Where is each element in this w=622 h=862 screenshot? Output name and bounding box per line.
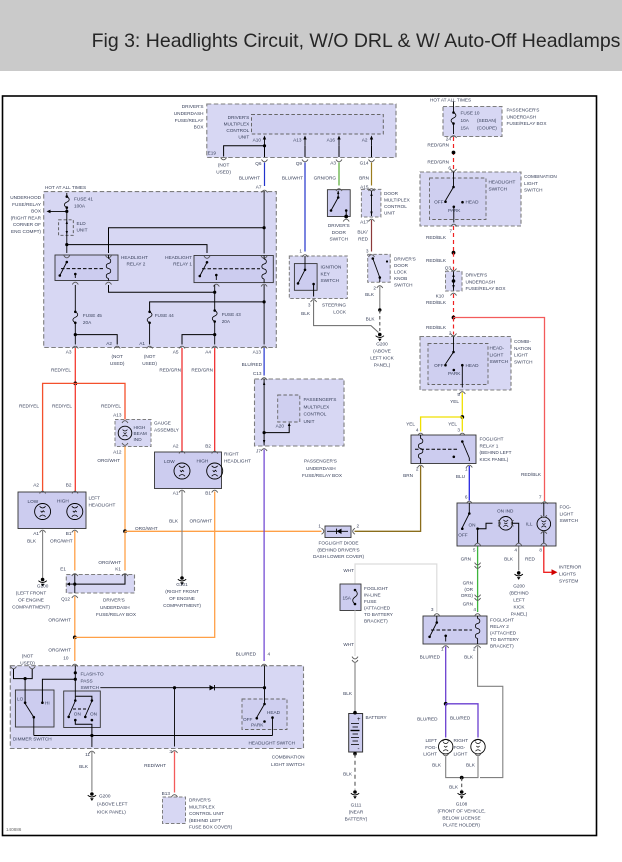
svg-text:RELAY 1: RELAY 1 (480, 443, 499, 448)
svg-text:A4: A4 (205, 350, 211, 355)
box: dimmer switch (inner) (15, 690, 54, 727)
svg-text:UNDERDASH: UNDERDASH (174, 111, 204, 116)
svg-text:FUSE/RELAY: FUSE/RELAY (175, 118, 205, 123)
svg-text:Q3: Q3 (445, 266, 452, 271)
svg-text:B1: B1 (205, 491, 211, 496)
svg-text:A12: A12 (113, 450, 122, 455)
svg-text:RED/GRN: RED/GRN (159, 368, 181, 373)
svg-text:GRN/ORG: GRN/ORG (314, 176, 337, 181)
svg-text:RED/BLK: RED/BLK (426, 300, 447, 305)
svg-text:RED/YEL: RED/YEL (52, 404, 72, 409)
svg-text:5: 5 (473, 548, 476, 553)
svg-text:2: 2 (357, 524, 360, 529)
svg-text:(NOT: (NOT (22, 654, 34, 659)
box: headlight relay 2 (55, 255, 148, 281)
svg-text:E19: E19 (208, 151, 217, 156)
box: foglight relay 1 (411, 435, 512, 464)
svg-text:BLK: BLK (343, 772, 353, 777)
svg-text:(NOT: (NOT (218, 163, 230, 168)
box: ELD unit (59, 220, 88, 236)
svg-text:(NOT: (NOT (144, 354, 156, 359)
svg-text:A16: A16 (327, 138, 336, 143)
headlight relay 2 internals (59, 255, 112, 285)
svg-text:PASSENGER'S: PASSENGER'S (304, 459, 337, 464)
svg-text:RED/YEL: RED/YEL (19, 404, 39, 409)
svg-text:OFF: OFF (458, 533, 468, 538)
svg-text:ORG/WHT: ORG/WHT (190, 519, 213, 524)
svg-text:UNDERDASH: UNDERDASH (306, 466, 336, 471)
box: passenger's underdash fuse/relay box (fuse 10) (443, 107, 547, 137)
wire relay2 coil low to relay1 out junction (109, 285, 217, 294)
svg-text:LIGHT: LIGHT (560, 511, 574, 516)
svg-text:A20: A20 (276, 424, 285, 429)
svg-text:BRN: BRN (403, 473, 413, 478)
svg-text:WHT: WHT (343, 642, 354, 647)
right headlight bulbs (174, 463, 223, 493)
box: driver's underdash fuse/relay box (small right) (446, 271, 507, 291)
box: left headlight (18, 492, 115, 529)
wire relay2 out to fuse 45 and A2 (73, 285, 117, 345)
svg-text:G108: G108 (456, 802, 468, 807)
svg-text:4: 4 (473, 607, 476, 612)
svg-text:HEADLIGHT: HEADLIGHT (121, 255, 148, 260)
svg-text:ORG/WHT: ORG/WHT (97, 458, 120, 463)
svg-text:-: - (358, 747, 360, 753)
wire G14->A15 BRN (369, 163, 375, 192)
svg-text:A2: A2 (362, 138, 368, 143)
svg-text:COMBINATION: COMBINATION (272, 755, 305, 760)
svg-text:GRN: GRN (461, 557, 471, 562)
svg-text:HIGH: HIGH (134, 425, 146, 430)
svg-text:FUSE 43: FUSE 43 (222, 312, 241, 317)
svg-text:Q6: Q6 (255, 161, 262, 166)
svg-text:FUSE: FUSE (364, 599, 377, 604)
svg-text:A5: A5 (173, 350, 179, 355)
svg-text:A7: A7 (256, 185, 262, 190)
wire WHT battery feed to relay 2 pin 3 (355, 564, 440, 616)
svg-text:OFF: OFF (243, 717, 253, 722)
svg-text:BLU: BLU (456, 474, 466, 479)
gauge assembly high beam ind (118, 421, 132, 446)
svg-text:15A: 15A (461, 126, 470, 131)
svg-text:OF ENGINE: OF ENGINE (18, 598, 44, 603)
box: door multiplex control unit (361, 189, 410, 217)
svg-text:A3: A3 (66, 350, 72, 355)
svg-text:FOGLIGHT: FOGLIGHT (490, 618, 514, 623)
node labels: top multiplex (208, 138, 395, 368)
driver's underdash box (bottom) internals (67, 575, 126, 599)
svg-text:G100: G100 (37, 584, 49, 589)
svg-text:LEFT: LEFT (426, 738, 438, 743)
svg-text:RED: RED (525, 557, 536, 562)
svg-text:(RIGHT REAR: (RIGHT REAR (11, 215, 42, 220)
svg-text:SWITCH: SWITCH (330, 237, 349, 242)
svg-text:UNDERDASH: UNDERDASH (466, 279, 496, 284)
wire door knob to G200 BLK (378, 287, 381, 332)
bottom bus wire (34, 734, 273, 754)
arrow feed left (47, 210, 69, 214)
svg-text:G111: G111 (351, 803, 362, 808)
svg-text:4: 4 (268, 652, 271, 657)
box: flash-to-pass switch (inner) (64, 672, 104, 728)
svg-text:BLK: BLK (466, 763, 476, 768)
box: underhood fuse/relay box (10, 192, 276, 348)
wire BLU/RED into head switch (264, 666, 266, 700)
svg-text:A15: A15 (360, 184, 369, 189)
svg-text:G200: G200 (513, 584, 525, 589)
svg-text:20A: 20A (83, 320, 92, 325)
svg-text:BRACKET): BRACKET) (364, 619, 388, 624)
svg-text:FOGLIGHT: FOGLIGHT (364, 586, 388, 591)
svg-text:PASS: PASS (81, 678, 93, 683)
wire right headlight A1 BLK to G101 (178, 491, 186, 585)
svg-text:(ATTACHED: (ATTACHED (364, 606, 391, 611)
svg-text:UNIT: UNIT (77, 228, 88, 233)
wire foglight switch 5 GRN down to relay 2 (475, 547, 481, 617)
svg-text:BLU/WHT: BLU/WHT (239, 176, 260, 181)
title bar background (0, 0, 622, 71)
box: right headlight (155, 452, 251, 489)
driver's door switch internals (330, 191, 350, 222)
svg-text:(BEHIND LEFT: (BEHIND LEFT (480, 450, 512, 455)
wire Q12 ORG/WHT down to junction (72, 597, 78, 667)
svg-text:PARK: PARK (251, 723, 264, 728)
wire A13 BLU/RED to C13 (261, 348, 267, 380)
headlight relay 1 internals (199, 256, 268, 287)
svg-text:G14: G14 (360, 161, 369, 166)
svg-text:RED/GRN: RED/GRN (427, 160, 449, 165)
svg-text:BLK: BLK (432, 763, 442, 768)
svg-text:1: 1 (465, 467, 468, 472)
svg-text:PASSENGER'S: PASSENGER'S (507, 108, 540, 113)
svg-text:ELD: ELD (77, 221, 87, 226)
wire 11 BLK to G200 (88, 752, 96, 801)
svg-text:HEAD: HEAD (267, 710, 281, 715)
wire 7 RED/BLK dashed to D3 (451, 226, 457, 271)
node A2 arrow (370, 136, 373, 158)
svg-text:COMPARTMENT): COMPARTMENT) (163, 603, 201, 608)
svg-text:RED/BLK: RED/BLK (521, 472, 542, 477)
ignition key switch internals (297, 256, 315, 297)
svg-text:SWITCH: SWITCH (560, 518, 579, 523)
svg-text:ILL: ILL (526, 522, 533, 527)
svg-text:ORG/WHT: ORG/WHT (98, 560, 121, 565)
svg-text:BATTERY): BATTERY) (345, 817, 368, 822)
box: headlight relay 1 (165, 255, 273, 283)
wire RED/YEL horizontal (43, 383, 125, 491)
svg-text:IN-LINE: IN-LINE (364, 593, 381, 598)
svg-text:BLU/RED: BLU/RED (417, 717, 438, 722)
left headlight bulbs (35, 504, 83, 533)
svg-text:SWITCH: SWITCH (490, 359, 509, 364)
wire 5 YEL to foglight relay 1 (418, 393, 466, 436)
combination light switch internals (mid right) (444, 337, 465, 395)
svg-text:BLK/: BLK/ (357, 230, 368, 235)
svg-text:CONTROL: CONTROL (304, 412, 327, 417)
svg-text:RED/BLK: RED/BLK (426, 325, 447, 330)
wire ignition steering lock BLK (311, 300, 379, 333)
svg-text:UNIT: UNIT (304, 419, 315, 424)
svg-text:140886: 140886 (6, 827, 22, 832)
svg-text:7: 7 (449, 229, 452, 234)
foglight relay 1 internals (415, 435, 472, 468)
svg-text:RED: RED (358, 236, 369, 241)
foglight in-line fuse internals (353, 589, 358, 606)
svg-text:YEL: YEL (448, 422, 457, 427)
chevrons into left headlight (40, 491, 78, 493)
svg-text:DIMMER SWITCH: DIMMER SWITCH (13, 737, 52, 742)
wire fog lights BLK to G108 (446, 757, 478, 800)
svg-text:3: 3 (431, 607, 434, 612)
svg-text:RED/GRN: RED/GRN (191, 368, 213, 373)
passenger's multiplex internals (261, 379, 291, 451)
svg-text:LIGHT: LIGHT (454, 752, 468, 757)
svg-text:A1: A1 (173, 491, 179, 496)
svg-text:BLK: BLK (366, 317, 376, 322)
door lock knob switch internals (372, 257, 389, 288)
svg-text:(SEDAN): (SEDAN) (477, 118, 497, 123)
svg-text:COMPARTMENT): COMPARTMENT) (12, 605, 50, 610)
svg-text:LOW: LOW (28, 499, 39, 504)
svg-text:SWITCH: SWITCH (321, 278, 340, 283)
box: driver's underdash fuse/relay box (top) (174, 104, 396, 158)
svg-text:Q12: Q12 (61, 597, 70, 602)
svg-text:FOGLIGHT DIODE: FOGLIGHT DIODE (318, 541, 358, 546)
svg-text:BLK: BLK (301, 311, 311, 316)
svg-text:GAUGE: GAUGE (154, 421, 171, 426)
wire HI contact up to node 10 (42, 678, 77, 703)
flash-to-pass switch contacts (67, 699, 93, 735)
svg-text:BLK: BLK (464, 655, 474, 660)
svg-text:BATTERY: BATTERY (366, 715, 388, 720)
svg-text:HEADLIGHT: HEADLIGHT (489, 180, 516, 185)
svg-text:UNDERHOOD: UNDERHOOD (10, 195, 41, 200)
svg-text:TO BATTERY: TO BATTERY (364, 612, 394, 617)
svg-text:DRIVER'S: DRIVER'S (182, 104, 204, 109)
svg-text:BLU/RED: BLU/RED (450, 716, 471, 721)
svg-text:FUSE/RELAY BOX: FUSE/RELAY BOX (96, 612, 137, 617)
svg-text:BLK: BLK (169, 519, 179, 524)
svg-text:UNIT: UNIT (238, 134, 249, 139)
connector chevrons at box bottom (221, 158, 375, 162)
svg-text:ORG/WHT: ORG/WHT (50, 539, 73, 544)
svg-text:E1: E1 (60, 567, 66, 572)
svg-text:(BEHIND DRIVER'S: (BEHIND DRIVER'S (317, 547, 359, 552)
svg-text:BRACKET): BRACKET) (490, 644, 514, 649)
box: foglight diode (313, 526, 364, 559)
box: foglight relay 2 (423, 616, 520, 649)
svg-text:BRN: BRN (359, 176, 369, 181)
svg-text:4: 4 (514, 548, 517, 553)
svg-text:6: 6 (465, 495, 468, 500)
svg-text:RED/WHT: RED/WHT (144, 763, 166, 768)
svg-text:OFF: OFF (434, 200, 444, 205)
svg-text:Fig 3: Headlights Circuit, W/O: Fig 3: Headlights Circuit, W/O DRL & W/ … (92, 30, 621, 52)
svg-text:YEL: YEL (450, 399, 459, 404)
svg-text:ON IND: ON IND (497, 509, 514, 514)
svg-text:(COUPE): (COUPE) (477, 126, 497, 131)
box: gauge assembly (high beam ind) (115, 420, 180, 447)
chevrons at underhood box bottom (72, 346, 267, 348)
svg-text:LOW: LOW (164, 459, 175, 464)
svg-text:RIGHT: RIGHT (454, 738, 469, 743)
svg-text:SWITCH: SWITCH (514, 359, 533, 364)
svg-text:UNIT: UNIT (384, 211, 395, 216)
svg-text:HEAD: HEAD (466, 363, 480, 368)
svg-text:FUSE 10: FUSE 10 (461, 111, 480, 116)
wire RED/BLK long right branch to foglight switch 7 (454, 318, 548, 505)
svg-text:HI: HI (45, 701, 50, 706)
wire J7 BLU/RED down to combination light switch (261, 450, 267, 667)
headlight switch (bottom) contacts (255, 699, 273, 736)
wire Q6->A7 BLU/WHT (262, 163, 268, 193)
svg-text:RED/BLK: RED/BLK (426, 258, 447, 263)
wire WHT below fuse to connector (352, 611, 358, 663)
svg-text:OF ENGINE: OF ENGINE (169, 596, 195, 601)
svg-text:HEADLIGHT: HEADLIGHT (89, 502, 116, 507)
svg-text:PANEL): PANEL) (374, 363, 391, 368)
wire A5 RED/GRN (179, 348, 185, 454)
svg-text:BOX: BOX (31, 209, 42, 214)
box: battery (349, 714, 388, 753)
combination headlight switch internals (upper) (444, 172, 464, 227)
svg-text:DOOR: DOOR (394, 263, 409, 268)
wire hot feed + fuse 41 (64, 193, 69, 245)
svg-text:BLK: BLK (79, 764, 89, 769)
svg-text:USED): USED) (20, 660, 35, 665)
svg-text:RIGHT: RIGHT (224, 452, 239, 457)
svg-text:ORG/WHT: ORG/WHT (48, 618, 71, 623)
svg-text:RED/YEL: RED/YEL (51, 368, 71, 373)
underhood box labels (45, 185, 263, 376)
svg-text:CORNER OF: CORNER OF (13, 222, 41, 227)
svg-text:A13: A13 (253, 350, 262, 355)
svg-text:2: 2 (373, 286, 376, 291)
wire relay1 out to fuse 43, A5, A4 (182, 285, 217, 345)
svg-text:8: 8 (539, 548, 542, 553)
wire ORG/WHT bottom horizontal to right headlight B1 (75, 492, 215, 638)
foglight area labels (318, 524, 485, 828)
svg-text:A3: A3 (330, 161, 336, 166)
svg-text:IND: IND (134, 437, 143, 442)
svg-text:ORG/WHT: ORG/WHT (48, 648, 71, 653)
ELD unit tap arrows (66, 221, 68, 235)
left fog light (439, 739, 453, 756)
svg-text:FLASH-TO: FLASH-TO (81, 672, 104, 677)
foglight relay 2 internals (428, 616, 480, 648)
svg-text:MULTIPLEX: MULTIPLEX (304, 404, 331, 409)
svg-text:BLU/RED: BLU/RED (236, 652, 257, 657)
svg-text:FUSE/RELAY: FUSE/RELAY (12, 202, 42, 207)
node A10 arrow (303, 136, 306, 158)
svg-text:LIGHT: LIGHT (423, 752, 437, 757)
svg-text:ORG): ORG) (461, 593, 474, 598)
box: combination light switch (bottom) (10, 666, 304, 767)
box: combination light switch (headlight switch, right mid) (420, 337, 533, 391)
svg-text:RED/BLK: RED/BLK (426, 235, 447, 240)
svg-text:100A: 100A (74, 203, 86, 208)
svg-text:LIGHT: LIGHT (514, 353, 528, 358)
svg-text:USED): USED) (216, 169, 231, 174)
svg-text:A2: A2 (33, 483, 39, 488)
wire 3 RED/WHT to B13 (172, 688, 178, 797)
svg-text:COMBINATION: COMBINATION (524, 174, 557, 179)
svg-text:DOOR: DOOR (384, 191, 399, 196)
wire 24->6 RED/GRN dashed (451, 137, 457, 171)
svg-text:MULTIPLEX: MULTIPLEX (189, 804, 216, 809)
svg-text:FUSE/RELAY BOX: FUSE/RELAY BOX (466, 286, 507, 291)
svg-text:LEFT KICK: LEFT KICK (370, 356, 394, 361)
dimmer switch internals (24, 701, 44, 735)
wire A3 RED/YEL down to junction (73, 348, 77, 385)
svg-text:BLK: BLK (449, 785, 459, 790)
svg-text:DRIVER'S: DRIVER'S (466, 273, 488, 278)
svg-text:DOOR: DOOR (332, 230, 347, 235)
svg-text:DASH LOWER COVER): DASH LOWER COVER) (313, 554, 364, 559)
svg-text:A1: A1 (139, 341, 145, 346)
diode line (head circuit) (100, 685, 266, 690)
wire BLK connector to battery (353, 662, 357, 715)
svg-text:ENG COMPT): ENG COMPT) (11, 229, 41, 234)
svg-text:LOCK: LOCK (394, 270, 408, 275)
svg-text:(ATTACHED: (ATTACHED (490, 631, 517, 636)
svg-text:DRIVER'S: DRIVER'S (228, 115, 250, 120)
foglight switch internals (461, 503, 551, 546)
center labels (236, 424, 285, 657)
svg-text:SYSTEM: SYSTEM (559, 579, 578, 584)
svg-text:A1: A1 (33, 531, 39, 536)
svg-text:FOG-: FOG- (454, 745, 466, 750)
svg-text:DRIVER'S: DRIVER'S (103, 598, 125, 603)
box: foglight switch (457, 503, 578, 546)
svg-text:KICK: KICK (514, 605, 526, 610)
svg-text:2: 2 (449, 331, 452, 336)
wire foglight switch 4 BLK to G200 (515, 547, 523, 580)
svg-text:PASSENGER'S: PASSENGER'S (304, 397, 337, 402)
svg-text:SWITCH: SWITCH (394, 283, 413, 288)
box: combination headlight switch (upper right) (420, 172, 557, 226)
svg-text:(ABOVE: (ABOVE (373, 349, 391, 354)
svg-text:SWITCH: SWITCH (81, 685, 100, 690)
svg-text:LIGHT: LIGHT (490, 352, 504, 357)
svg-text:RELAY 1: RELAY 1 (173, 262, 192, 267)
svg-text:K10: K10 (436, 294, 445, 299)
svg-text:DRIVER'S: DRIVER'S (189, 798, 211, 803)
svg-text:SWITCH: SWITCH (489, 186, 508, 191)
svg-text:3: 3 (457, 428, 460, 433)
wire A7 column inside box (to relay coils) (109, 192, 266, 254)
box: driver's multiplex control unit (inner) (224, 115, 384, 140)
svg-text:C13: C13 (253, 371, 262, 376)
svg-text:(NEAR: (NEAR (349, 810, 364, 815)
svg-text:BLU/WHT: BLU/WHT (282, 176, 303, 181)
svg-text:MULTIPLEX: MULTIPLEX (224, 121, 251, 126)
svg-text:K1: K1 (115, 567, 121, 572)
svg-text:HEADLIGHT: HEADLIGHT (224, 458, 251, 463)
svg-text:(ABOVE LEFT: (ABOVE LEFT (97, 802, 128, 807)
svg-text:BLU/RED: BLU/RED (420, 655, 441, 660)
svg-text:HOT AT ALL TIMES: HOT AT ALL TIMES (430, 98, 471, 103)
svg-text:KICK PANEL): KICK PANEL) (480, 457, 509, 462)
svg-text:BLK: BLK (27, 539, 37, 544)
svg-text:BLU/RED: BLU/RED (242, 362, 263, 367)
svg-text:HIGH: HIGH (197, 459, 209, 464)
svg-text:MULTIPLEX: MULTIPLEX (384, 198, 411, 203)
svg-text:PLATE HOLDER): PLATE HOLDER) (443, 823, 480, 828)
svg-text:FUSE/RELAY BOX: FUSE/RELAY BOX (302, 473, 343, 478)
svg-text:FUSE 41: FUSE 41 (74, 197, 93, 202)
svg-text:LEFT: LEFT (89, 496, 101, 501)
